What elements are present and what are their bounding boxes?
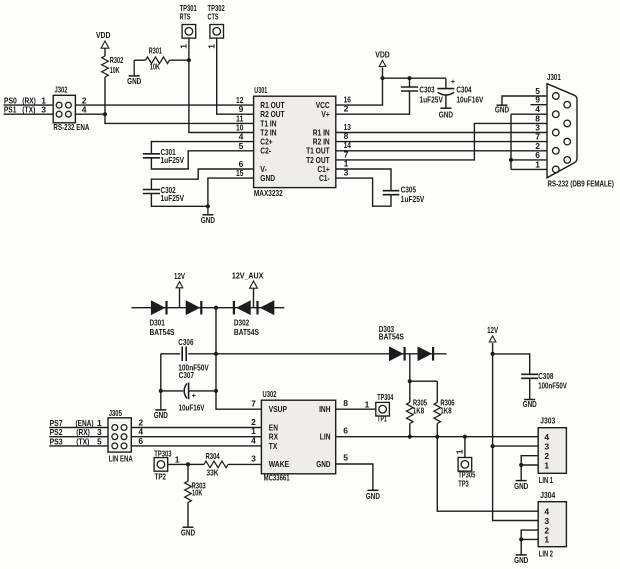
- svg-text:GND: GND: [154, 410, 168, 420]
- ground (J304): [514, 539, 528, 565]
- svg-text:MAX3232: MAX3232: [254, 188, 283, 198]
- junction VSUP/C306: [214, 352, 218, 356]
- svg-text:J303: J303: [540, 415, 555, 425]
- wire C306 to C307: [160, 354, 162, 391]
- svg-text:+: +: [192, 393, 196, 400]
- svg-text:BAT54S: BAT54S: [150, 327, 175, 337]
- svg-text:1: 1: [175, 455, 180, 465]
- capacitor C308: [493, 354, 568, 399]
- test point TP305: [454, 437, 475, 489]
- svg-text:VSUP: VSUP: [269, 404, 287, 414]
- junction D303 tap/R305: [408, 379, 412, 383]
- svg-text:RTS: RTS: [180, 11, 191, 21]
- wire VDD rail: [383, 77, 446, 79]
- svg-text:3: 3: [544, 441, 549, 451]
- svg-text:10K: 10K: [150, 62, 160, 72]
- svg-text:WAKE: WAKE: [269, 459, 290, 469]
- svg-text:GND: GND: [181, 528, 195, 538]
- svg-text:V+: V+: [321, 109, 329, 119]
- svg-text:J305: J305: [109, 408, 122, 418]
- junction LIN/R305: [408, 435, 412, 439]
- junction J304.1/GND: [519, 537, 523, 541]
- junction C306/C307 left: [159, 389, 163, 393]
- svg-text:1: 1: [544, 460, 549, 470]
- svg-text:GND: GND: [514, 481, 528, 491]
- svg-text:PS3: PS3: [50, 436, 63, 446]
- ground (U301): [201, 206, 215, 225]
- svg-text:8: 8: [343, 398, 348, 408]
- wire U301.7 to J301.8: [336, 123, 547, 159]
- IC U302 MC33661: [251, 389, 348, 482]
- diode D303 (BAT54S): [216, 324, 447, 361]
- ground (R301): [127, 60, 141, 86]
- node PS2 (RX): [49, 427, 108, 437]
- svg-text:C1-: C1-: [319, 173, 330, 183]
- svg-text:6: 6: [343, 425, 348, 435]
- svg-text:33K: 33K: [207, 467, 220, 477]
- connector J303: [538, 415, 566, 485]
- svg-text:1: 1: [365, 400, 370, 410]
- wire CTS to U301.9: [217, 38, 254, 114]
- svg-text:5: 5: [97, 436, 102, 446]
- capacitor C301: [143, 142, 254, 169]
- junction 12V/C308: [491, 352, 495, 356]
- svg-text:10K: 10K: [110, 65, 120, 75]
- connector J301 (DB9): [531, 72, 615, 188]
- IC U301 MAX3232: [236, 85, 351, 198]
- svg-text:1: 1: [179, 44, 189, 49]
- svg-text:1uF25V: 1uF25V: [161, 193, 185, 203]
- svg-text:C304: C304: [456, 84, 471, 94]
- svg-text:J302: J302: [55, 85, 68, 95]
- svg-text:3: 3: [41, 105, 46, 115]
- wire U301.8 to J301.7: [336, 141, 547, 143]
- test point TP303: [154, 448, 188, 481]
- svg-text:(TX): (TX): [22, 105, 35, 115]
- svg-text:R302: R302: [110, 55, 124, 65]
- svg-text:LIN ENA: LIN ENA: [109, 453, 133, 463]
- capacitor C302: [143, 169, 254, 206]
- node PS3 (TX): [49, 436, 108, 446]
- svg-text:GND: GND: [127, 76, 141, 86]
- wire J305.4 to U302.RX: [131, 436, 261, 438]
- svg-text:GND: GND: [439, 110, 453, 120]
- svg-text:6: 6: [535, 150, 540, 160]
- svg-text:10K: 10K: [192, 488, 203, 498]
- svg-text:VDD: VDD: [96, 30, 111, 40]
- capacitor C303: [336, 78, 443, 114]
- wire LIN to J304.4: [437, 437, 538, 512]
- junction LIN/R306: [435, 435, 439, 439]
- connector J305: [108, 408, 143, 464]
- wire J301 4-6-1 tie: [511, 114, 547, 169]
- ground (R303): [181, 527, 195, 538]
- junction PS1/R302: [103, 112, 107, 116]
- wire U302.LIN bus: [336, 436, 538, 438]
- ground (J301.5): [495, 104, 509, 114]
- svg-text:TP1: TP1: [377, 414, 387, 424]
- test point TP302: [206, 3, 225, 49]
- svg-text:GND: GND: [514, 555, 528, 565]
- svg-text:GND: GND: [495, 104, 509, 114]
- svg-text:MC33661: MC33661: [264, 472, 290, 482]
- test point TP304: [336, 392, 394, 424]
- junction rail/C303: [407, 76, 411, 80]
- junction J301.6 tie: [509, 158, 513, 162]
- svg-text:TP303: TP303: [154, 448, 171, 458]
- power 12V_AUX (D302): [232, 270, 264, 307]
- ground (C308): [523, 399, 537, 409]
- svg-text:C306: C306: [178, 337, 193, 347]
- svg-text:7: 7: [251, 399, 256, 409]
- capacitor C306: [161, 337, 216, 372]
- diode D302 (BAT54S): [216, 300, 284, 337]
- svg-text:J301: J301: [547, 72, 561, 82]
- junction VSUP/C307: [214, 389, 218, 393]
- svg-text:BAT54S: BAT54S: [234, 327, 259, 337]
- svg-text:5: 5: [343, 453, 348, 463]
- wire U301.16 to VDD: [336, 68, 383, 106]
- svg-text:C2-: C2-: [260, 146, 271, 156]
- svg-text:1: 1: [544, 535, 549, 545]
- svg-text:12V_AUX: 12V_AUX: [232, 270, 264, 280]
- svg-text:1uF25V: 1uF25V: [419, 94, 443, 104]
- svg-text:3: 3: [544, 516, 549, 526]
- power VDD (R302): [96, 30, 111, 48]
- svg-text:12V: 12V: [174, 271, 185, 281]
- svg-text:1K8: 1K8: [413, 406, 424, 416]
- svg-text:R301: R301: [149, 45, 162, 55]
- svg-text:1uF25V: 1uF25V: [401, 194, 425, 204]
- svg-text:PS1: PS1: [4, 105, 17, 115]
- resistor R303: [185, 464, 206, 527]
- power 12V (LIN): [487, 325, 498, 354]
- svg-text:100nF50V: 100nF50V: [538, 380, 567, 390]
- svg-text:D301: D301: [150, 318, 165, 328]
- svg-text:10uF16V: 10uF16V: [179, 402, 205, 412]
- wire R302 junction to U301.11: [105, 114, 254, 123]
- wire 12V to J303.3/J304.3: [493, 354, 538, 521]
- svg-text:TP3: TP3: [458, 479, 469, 489]
- svg-text:RS-232 ENA: RS-232 ENA: [53, 122, 89, 132]
- wire J302.2 to U301.12: [75, 104, 253, 106]
- wire U301.15 to ground: [208, 178, 254, 206]
- svg-text:4: 4: [82, 105, 87, 115]
- svg-text:GND: GND: [316, 459, 330, 469]
- svg-text:C307: C307: [179, 370, 194, 380]
- power VDD (U301 VCC): [375, 50, 390, 67]
- wire U301.3 to C305: [336, 178, 391, 206]
- svg-text:12V: 12V: [487, 325, 498, 335]
- svg-text:U302: U302: [263, 389, 277, 399]
- capacitor C305: [336, 169, 425, 204]
- wire U301.13 to J301.3: [336, 132, 547, 134]
- wire U302.GND to ground: [336, 464, 373, 490]
- wire U301.14 to J301.2: [336, 150, 547, 152]
- svg-text:LIN 2: LIN 2: [539, 549, 553, 559]
- ground (J303): [514, 465, 528, 491]
- junction C302/U301.15: [206, 204, 210, 208]
- svg-text:LIN 1: LIN 1: [539, 475, 553, 485]
- svg-text:1: 1: [206, 44, 216, 49]
- wire D303 tap to R305/R306: [410, 354, 438, 381]
- svg-text:C303: C303: [419, 84, 434, 94]
- svg-text:U301: U301: [254, 85, 267, 95]
- wire J301.5 to ground: [502, 96, 547, 105]
- svg-text:J304: J304: [540, 490, 555, 500]
- svg-text:LIN: LIN: [320, 432, 331, 442]
- junction J303.1/GND: [519, 463, 523, 467]
- node PS0 (RX): [4, 95, 54, 105]
- svg-text:GND: GND: [523, 399, 537, 409]
- svg-text:3: 3: [251, 453, 256, 463]
- svg-text:GND: GND: [366, 491, 380, 501]
- capacitor C307: [161, 370, 216, 412]
- svg-text:+: +: [451, 77, 456, 86]
- svg-text:TP304: TP304: [377, 392, 393, 402]
- svg-text:INH: INH: [319, 404, 330, 414]
- svg-text:(TX): (TX): [76, 436, 89, 446]
- wire RTS to U301.10: [189, 60, 254, 132]
- wire J304.2/1 tie: [521, 530, 538, 539]
- resistor R306: [434, 381, 455, 437]
- ground (U302): [366, 490, 380, 501]
- svg-text:1: 1: [535, 159, 540, 169]
- connector J304: [538, 490, 566, 559]
- resistor R302: [102, 48, 124, 114]
- svg-text:R304: R304: [206, 451, 220, 461]
- test point TP301: [179, 3, 197, 60]
- resistor R305: [407, 381, 428, 437]
- wire J303.2/1 tie: [521, 456, 538, 465]
- svg-text:BAT54S: BAT54S: [379, 332, 404, 342]
- node PS1 (TX): [4, 105, 54, 115]
- svg-text:CTS: CTS: [208, 11, 219, 21]
- junction LIN/TP305: [463, 435, 467, 439]
- junction D301/D302/VSUP: [214, 306, 218, 310]
- wire J305.6 to U302.TX: [131, 445, 261, 447]
- diode D301 (BAT54S): [132, 300, 217, 337]
- ground (C304): [439, 108, 453, 119]
- svg-text:D302: D302: [234, 318, 249, 328]
- node PS7 (ENA): [49, 418, 108, 428]
- connector J302: [53, 85, 89, 133]
- wire 12V to J303.3 branch: [493, 445, 538, 447]
- capacitor C304: [437, 77, 483, 108]
- svg-text:GND: GND: [201, 215, 215, 225]
- svg-text:1: 1: [454, 449, 464, 454]
- junction VDD/rail: [380, 76, 384, 80]
- wire J305.2 to U302.EN: [131, 427, 261, 429]
- svg-text:1K8: 1K8: [440, 406, 451, 416]
- svg-text:GND: GND: [260, 173, 275, 183]
- ground (C306/C307): [154, 391, 168, 420]
- svg-text:10uF16V: 10uF16V: [456, 94, 483, 104]
- svg-text:RS-232 (DB9 FEMALE): RS-232 (DB9 FEMALE): [548, 179, 615, 189]
- power 12V (D301): [174, 271, 185, 308]
- svg-text:1uF25V: 1uF25V: [161, 155, 185, 165]
- svg-text:TP2: TP2: [155, 471, 167, 481]
- wire 12V junction to U302.VSUP: [216, 308, 261, 410]
- svg-text:VDD: VDD: [375, 50, 390, 60]
- resistor R301: [134, 45, 189, 71]
- svg-text:TX: TX: [269, 441, 278, 451]
- junction RTS/R301: [187, 58, 191, 62]
- resistor R304: [188, 451, 261, 477]
- junction 12V/J303.3: [491, 444, 495, 448]
- wire J302.4 to R302: [75, 113, 105, 115]
- junction TP303/R303/R304: [186, 462, 190, 466]
